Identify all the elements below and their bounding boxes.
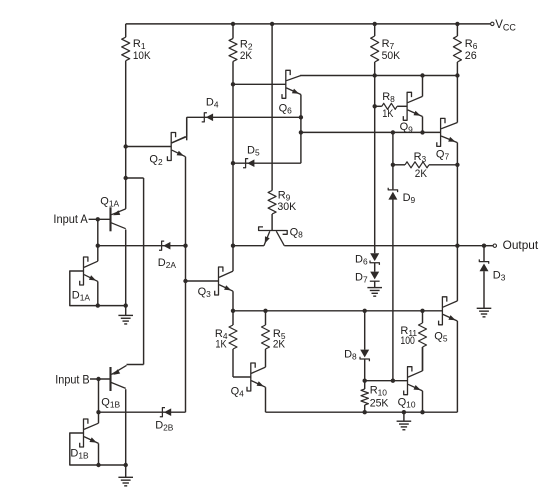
wire: Q2 collector riser <box>186 117 188 140</box>
svg-text:26: 26 <box>465 50 477 62</box>
wire: gnd stem D1A <box>125 306 127 316</box>
wire: Q7 base wire <box>301 131 441 133</box>
transistor Q1B <box>111 365 127 391</box>
wire: Q2 base <box>126 146 172 148</box>
wire: Q2 collector diag-to-riser <box>172 117 187 143</box>
label D9 <box>403 192 416 205</box>
label Input B <box>55 372 89 386</box>
svg-text:1K: 1K <box>215 339 227 351</box>
wire: Q4 emitter drop <box>265 387 267 412</box>
wire: Q9 collector riser <box>422 76 424 97</box>
wire: D1A bottom to gnd stem <box>98 305 126 307</box>
transistor Q6 <box>282 70 301 98</box>
label R10 value 25K <box>370 397 389 409</box>
wire: Q10 collector riser <box>422 347 424 371</box>
label R6 value 26 <box>465 50 477 62</box>
label Q1A <box>100 196 119 209</box>
label Q7 <box>436 148 450 161</box>
wire: Q6 collector rail <box>300 75 457 77</box>
resistor R1 <box>122 37 130 61</box>
wire: Q3 emitter drop <box>232 291 234 311</box>
label Output <box>503 238 539 252</box>
wire: Q4 collector riser <box>265 349 267 367</box>
wire: D4 wire <box>187 116 301 118</box>
diode D4 <box>202 113 213 122</box>
wire: Q3 collector riser <box>232 246 234 271</box>
wire: R3 right lead <box>429 164 457 166</box>
wire: gnd stem D1B <box>125 465 127 477</box>
wire: R4 upper lead <box>232 311 234 325</box>
resistor R10 <box>361 389 368 405</box>
label R5 <box>273 328 286 341</box>
wire: D3 upper lead <box>483 246 485 262</box>
transistor Q8 base bar <box>259 227 288 234</box>
svg-text:2K: 2K <box>415 168 428 180</box>
transistor-diode D1B body <box>80 419 88 447</box>
label Q5 <box>434 330 448 343</box>
label R10 <box>370 384 388 397</box>
ground below D3 <box>477 308 492 317</box>
label Input A <box>53 212 87 226</box>
wire: long bias rail <box>233 310 442 312</box>
resistor R5 <box>262 325 270 349</box>
transistor Q10 <box>404 367 423 395</box>
label R6 <box>465 38 478 51</box>
transistor Q3 <box>215 267 233 295</box>
resistor R7 <box>371 36 379 62</box>
zener D8 <box>360 350 369 362</box>
wire: R10 upper lead <box>364 381 366 389</box>
wire: Q5 emitter drop <box>456 321 458 412</box>
wire: D5 wire <box>233 162 301 164</box>
wire: R3 left lead <box>393 164 405 166</box>
wire: R7 column lower (to D6) <box>374 62 376 253</box>
wire: Q3 base wire <box>186 280 219 282</box>
wire: R7 column upper <box>374 24 376 36</box>
label Q8 <box>290 226 304 239</box>
ground below bottom rail <box>397 421 412 430</box>
label Q3 <box>198 286 212 299</box>
wire: R5 upper lead <box>265 311 267 325</box>
wire: D2B wire <box>99 411 186 413</box>
wire: D9 column lower <box>392 199 394 380</box>
wire: D1B emitter <box>84 437 99 465</box>
wire: Q9 emitter drop <box>422 117 424 133</box>
svg-text:1K: 1K <box>382 108 394 120</box>
wire: R2 column <box>232 24 234 246</box>
label Q2 <box>149 154 163 167</box>
label Q1B <box>101 397 120 410</box>
zener D3 <box>479 259 488 271</box>
wire: Q2 emitter column <box>185 157 187 413</box>
label Q6 <box>279 103 293 116</box>
wire: D7 to ground <box>374 281 376 287</box>
output terminal circle <box>493 244 496 247</box>
label R8 value 1K <box>382 108 394 120</box>
svg-text:Output: Output <box>503 238 539 252</box>
svg-text:50K: 50K <box>382 50 401 62</box>
zener D9 <box>388 188 397 200</box>
wire: output stub <box>484 245 493 247</box>
wire: Q7 collector riser <box>456 76 458 123</box>
wire: Q7 emitter drop <box>456 143 458 246</box>
diode D2A <box>159 241 170 250</box>
wire: VCC top rail <box>126 23 491 25</box>
svg-text:Input A: Input A <box>53 212 87 226</box>
transistor-diode D1A body <box>80 257 88 285</box>
zener D6 <box>370 253 379 265</box>
wire: Q8 collector to output <box>284 245 484 247</box>
label R1 value 10K <box>133 50 151 62</box>
diode D2B <box>160 408 171 417</box>
ground below D1B <box>118 477 133 486</box>
ground below D1A <box>118 315 133 324</box>
wire: R1 column lower <box>125 61 127 209</box>
wire: R9 column upper <box>271 24 273 191</box>
label R9 <box>278 189 291 202</box>
label R11 <box>400 325 417 338</box>
label R3 <box>414 151 427 164</box>
svg-text:30K: 30K <box>277 201 296 213</box>
wire: Q6 base <box>233 83 286 85</box>
label R7 value 50K <box>382 50 401 62</box>
diode D7 <box>370 272 380 282</box>
label Q9 <box>400 121 414 134</box>
wire: R9 to Q8 base <box>271 214 273 231</box>
wire: R11 upper lead <box>422 311 424 323</box>
wire: R6 to rail2 <box>456 62 458 76</box>
wire: D9 column upper <box>392 132 394 189</box>
wire: D1B base loop <box>70 433 99 465</box>
label R4 <box>215 328 228 341</box>
label R8 <box>382 91 395 104</box>
wire: R4 to Q4 base <box>233 349 251 377</box>
wire: D1A emitter <box>84 275 98 306</box>
wire: Q6 emitter column <box>300 95 302 164</box>
label R11 value 100 <box>400 335 415 347</box>
wire: R8 right lead <box>397 105 407 107</box>
label VCC <box>495 19 516 32</box>
wire: D3 lower lead <box>483 271 485 308</box>
svg-text:10K: 10K <box>133 50 151 62</box>
label Q10 <box>398 396 416 409</box>
resistor R6 <box>453 36 461 62</box>
wire: R6 column upper <box>456 24 458 36</box>
diode D5 <box>243 159 254 168</box>
svg-text:2K: 2K <box>240 50 253 62</box>
wire: D2A wire <box>98 245 186 247</box>
label R2 value 2K <box>240 50 253 62</box>
wire: D1A base loop <box>70 271 98 306</box>
transistor Q4 <box>247 363 266 391</box>
wire: bottom emitter rail <box>266 411 458 413</box>
wire: Q1A collector drop <box>125 230 127 306</box>
label R1 <box>133 38 146 51</box>
label R5 value 2K <box>273 339 286 351</box>
wire: branch R1 to Q1B feed <box>126 178 144 365</box>
label D4 <box>206 96 219 109</box>
wire: Q10 emitter drop <box>422 391 424 412</box>
transistor Q5 <box>439 297 458 325</box>
label R3 value 2K <box>415 168 428 180</box>
label D1B <box>70 447 89 460</box>
wire: D6-D7 link <box>374 263 376 272</box>
resistor R11 <box>419 323 427 347</box>
wire: Q8 emitter wire <box>233 245 264 247</box>
transistor Q2 <box>167 133 185 161</box>
svg-text:Input B: Input B <box>55 372 89 386</box>
label Q4 <box>231 385 245 398</box>
wire: Q1B collector drop <box>125 389 127 465</box>
wire: R10 lower lead <box>364 405 366 412</box>
transistor Q8 collector <box>276 231 284 246</box>
wire: Q5 collector riser <box>456 246 458 301</box>
wire: Input B branch down <box>98 379 100 423</box>
transistor Q8 emitter <box>264 231 270 246</box>
label D7 <box>355 271 368 284</box>
ground below D7 <box>367 288 382 297</box>
resistor R2 <box>229 39 237 62</box>
svg-text:100: 100 <box>400 335 415 347</box>
wire: Input A branch down <box>97 219 99 245</box>
resistor R8 <box>382 103 397 109</box>
wire: D1A collector <box>84 246 98 268</box>
wire: Input B lead <box>90 378 111 380</box>
transistor Q9 <box>403 92 422 120</box>
wire: R11 lower lead <box>422 347 424 371</box>
VCC terminal circle <box>491 22 494 25</box>
wire: D8 to Q10 base wire <box>365 380 408 382</box>
transistor Q7 <box>437 118 458 146</box>
svg-text:25K: 25K <box>370 397 389 409</box>
label D2A <box>158 257 177 270</box>
label D2B <box>155 419 174 432</box>
resistor R9 <box>268 191 276 215</box>
wire: D1B collector <box>84 423 99 429</box>
label R4 value 1K <box>215 339 227 351</box>
label D5 <box>247 144 260 157</box>
wire: Input A lead <box>89 218 111 220</box>
wire: D8 upper lead <box>364 311 366 350</box>
transistor Q1A <box>111 207 126 231</box>
wire: gnd stem bottom <box>403 412 405 421</box>
wire: D8 lower lead <box>364 359 366 381</box>
label R2 <box>240 38 253 51</box>
wire: R8 left lead <box>375 105 382 107</box>
wire: R1 column upper <box>125 24 127 37</box>
label D6 <box>355 253 368 266</box>
label D1A <box>72 289 91 302</box>
label R9 value 30K <box>277 201 296 213</box>
wire: D1B bottom wire <box>99 464 126 466</box>
resistor R4 <box>229 325 237 349</box>
label R7 <box>382 38 395 51</box>
label D3 <box>493 269 506 282</box>
svg-text:2K: 2K <box>273 339 286 351</box>
resistor R3 <box>405 162 429 168</box>
label D8 <box>344 348 357 361</box>
